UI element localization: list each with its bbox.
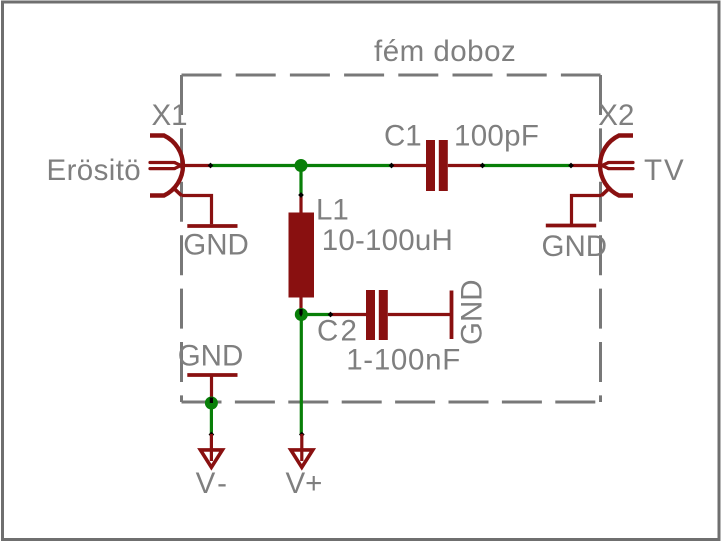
pin-end marker V+ [299,432,305,438]
svg-text:GND: GND [456,279,489,345]
supply symbol V+ [291,434,313,467]
net wire: node B to C2 (green) [301,313,330,316]
pin-end marker V- [209,432,215,438]
junction node C [205,397,218,410]
shield box dashed left edge [180,75,183,402]
shield box dashed bottom edge [182,401,601,404]
svg-text:100pF: 100pF [454,120,539,153]
svg-text:fém doboz: fém doboz [374,35,516,68]
svg-text:X2: X2 [598,99,634,132]
svg-text:1-100nF: 1-100nF [346,343,461,376]
pin-end marker L1 bottom [299,309,302,317]
svg-text:X1: X1 [152,99,188,132]
pin-end marker X1 [208,163,214,169]
pin-end marker GND V- [210,398,213,407]
pin-end marker X2 [568,163,574,169]
net wire: node A down to L1 (green) [299,166,302,197]
svg-text:V+: V+ [286,467,323,500]
wire X2 shield to ground [572,196,602,225]
capacitor C2 1-100nF [331,290,451,340]
pin-end marker C2 left [328,312,334,318]
svg-text:Erösitö: Erösitö [47,154,142,187]
net wire N1: X1 pin to C1 (green) [211,164,391,167]
svg-text:V-: V- [196,467,231,500]
pin-end marker C1 right [480,163,486,169]
junction node A [295,159,308,172]
net wire N1: C1 to X2 pin (green) [483,164,571,167]
svg-text:GND: GND [542,230,608,263]
ground GND at C2 (rotated) [450,291,454,340]
shield box dashed right edge [599,75,602,402]
inductor L1 [289,194,315,310]
ground GND at V- [187,373,237,377]
capacitor C1 100pF [392,140,483,191]
shield box dashed top edge [182,74,601,77]
connector X2 (coax, TV) [572,136,633,196]
pin-end marker L1 top [298,192,304,198]
svg-text:GND: GND [178,339,244,372]
svg-text:L1: L1 [316,194,349,227]
junction node B [295,308,308,321]
svg-text:GND: GND [183,228,249,261]
net wire: node C to V- (green) [210,403,213,434]
svg-text:C1: C1 [384,120,422,153]
connector X1 (coax, Erösitö) [150,136,211,196]
ground GND at X2 [546,224,596,228]
wire X1 shield to ground [182,196,212,225]
ground GND at X1 [187,224,237,228]
supply symbol V- [200,434,222,467]
svg-text:TV: TV [644,154,686,187]
svg-text:10-100uH: 10-100uH [322,224,453,257]
pin-end marker C1 left [389,163,395,169]
net wire: L1 bottom node to V+ (green) [300,315,303,435]
wire GND bar down to node C [210,375,213,398]
